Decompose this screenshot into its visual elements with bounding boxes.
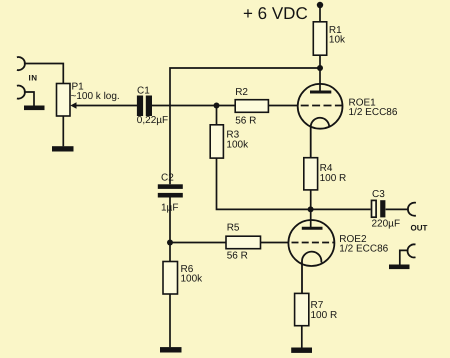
node A (C1/R2/R3 junction)	[214, 103, 220, 109]
ground (R6)	[160, 347, 182, 352]
node D (R4/anode2/output junction)	[308, 206, 314, 212]
svg-text:C2: C2	[161, 173, 174, 184]
svg-text:~100 k log.: ~100 k log.	[71, 91, 120, 102]
svg-text:100 R: 100 R	[320, 173, 347, 184]
jack OUT tip (upper output connector)	[408, 203, 416, 216]
P1 wiper arrow	[76, 105, 138, 107]
U2 anode plate	[302, 227, 323, 230]
resistor R6	[163, 262, 178, 295]
ground (P1)	[52, 146, 74, 151]
resistor R1	[313, 22, 326, 55]
U1 anode plate	[310, 91, 331, 94]
triode U2 ROE2 envelope	[288, 220, 334, 266]
triode U1 ROE1 envelope	[298, 84, 343, 129]
wire: R6 bottom to ground	[169, 294, 171, 347]
wire: input sleeve to ground	[24, 92, 34, 106]
ground (input jack)	[24, 106, 45, 111]
svg-text:OUT: OUT	[411, 224, 428, 233]
resistor R4	[304, 158, 318, 190]
svg-text:0,22µF: 0,22µF	[137, 115, 168, 126]
svg-text:1/2 ECC86: 1/2 ECC86	[339, 244, 388, 255]
wire: C1 to node A	[152, 105, 236, 107]
svg-text:100k: 100k	[181, 273, 204, 284]
capacitor C3 (polarized)	[372, 200, 377, 217]
potentiometer P1	[57, 84, 71, 117]
svg-text:R5: R5	[227, 223, 240, 234]
node B (C2/R5/R6 junction)	[167, 240, 173, 246]
U1 cathode and lead to R4	[311, 118, 330, 158]
wire: R5 to tube2 grid	[261, 242, 289, 244]
node C (R1/anode/top-bus junction)	[317, 65, 323, 71]
supply terminal +6VDC	[317, 2, 323, 8]
wire: node B to R6	[169, 243, 171, 262]
wire: node A to R3	[216, 106, 218, 125]
jack IN sleeve (lower input connector)	[17, 86, 25, 99]
svg-text:R2: R2	[235, 87, 248, 98]
jack OUT sleeve (lower output connector)	[407, 244, 415, 257]
jack IN tip (upper input connector)	[17, 57, 25, 70]
capacitor C1	[137, 96, 143, 117]
svg-text:10k: 10k	[329, 35, 346, 46]
wire: top bus from anode line down to C2	[170, 68, 320, 184]
svg-text:100k: 100k	[226, 140, 249, 151]
svg-text:100 R: 100 R	[311, 310, 338, 321]
U2 cathode and lead to R7	[302, 252, 321, 294]
wire: R1 to tube anode	[319, 55, 321, 91]
U2 anode lead	[310, 209, 312, 227]
resistor R7	[295, 293, 309, 325]
ground (R7)	[291, 348, 312, 353]
U2 grid (dashed)	[292, 242, 335, 244]
wire: node B to R5	[170, 242, 226, 244]
wire: output sleeve to ground	[400, 250, 409, 265]
wire: input jack to P1 top	[24, 64, 63, 84]
wire: C2 bottom to node B	[169, 198, 171, 243]
resistor R5	[226, 236, 261, 249]
wire: R3 bottom to node D	[217, 158, 371, 209]
wire: terminal to R1	[319, 5, 321, 22]
svg-text:56 R: 56 R	[235, 115, 256, 126]
svg-text:IN: IN	[29, 73, 38, 82]
wire: P1 bottom to ground	[62, 116, 64, 146]
resistor R2	[235, 100, 268, 113]
svg-text:220µF: 220µF	[372, 219, 401, 230]
wire: C3 to output jack	[386, 208, 409, 210]
resistor R3	[210, 125, 223, 158]
svg-text:+ 6 VDC: + 6 VDC	[243, 4, 308, 23]
svg-text:56 R: 56 R	[227, 250, 248, 261]
wire: R2 to tube1 grid	[268, 105, 297, 107]
capacitor C2	[158, 184, 183, 189]
U1 grid (dashed)	[301, 105, 342, 107]
svg-text:1/2 ECC86: 1/2 ECC86	[349, 107, 398, 118]
wire: R4 bottom to node D	[310, 190, 312, 210]
svg-text:C1: C1	[137, 86, 150, 97]
wire: R7 bottom to ground	[301, 326, 303, 348]
ground (output jack)	[389, 265, 410, 270]
svg-text:C3: C3	[372, 189, 385, 200]
